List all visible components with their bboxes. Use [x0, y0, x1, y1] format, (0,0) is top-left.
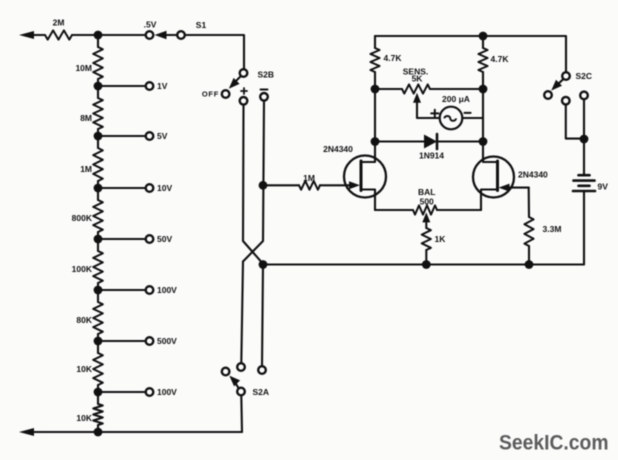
resistor 8M (divider) [80, 86, 103, 136]
svg-text:200 μA: 200 μA [442, 94, 470, 104]
switch S2A contact open [222, 368, 230, 376]
wire 2M to .5V contact [72, 34, 145, 36]
switch contact minus [260, 90, 268, 101]
svg-text:1M: 1M [80, 164, 92, 174]
node crossover bus junction [259, 260, 268, 269]
terminal 50V [146, 234, 173, 244]
wire V+ top bus [375, 36, 566, 72]
svg-text:1N914: 1N914 [419, 151, 444, 161]
svg-text:2N4340: 2N4340 [323, 144, 353, 154]
svg-text:8M: 8M [80, 113, 92, 123]
node tap 5V [94, 132, 103, 141]
switch S2C wiper arm [551, 79, 563, 90]
terminal 10V [146, 183, 173, 193]
svg-text:S2A: S2A [253, 387, 270, 397]
wiper SENS to meter [413, 93, 440, 118]
wire battery bottom lead [583, 192, 585, 264]
watermark SeekIC.com [499, 431, 609, 455]
svg-text:10K: 10K [76, 364, 92, 374]
svg-text:100V: 100V [157, 285, 177, 295]
node tap 500V [94, 337, 103, 346]
switch S2C contact b [562, 97, 570, 105]
svg-text:4.7K: 4.7K [491, 54, 510, 64]
meter M1 200uA [431, 94, 470, 129]
switch S1 pole [177, 20, 206, 39]
wire meter to right rail [462, 117, 483, 119]
resistor 100K (divider) [72, 239, 103, 290]
svg-text:800K: 800K [72, 213, 93, 223]
wire left rail mid [374, 89, 376, 142]
terminal 100V [146, 285, 177, 295]
terminal 100V [146, 387, 177, 397]
wire tap 5V [98, 135, 145, 137]
wire tap 100V [98, 289, 145, 291]
switch S2A contact b [258, 366, 266, 374]
node V+ bus right [479, 32, 488, 41]
wire negative bus [263, 263, 584, 265]
node 3.3M bus [525, 260, 534, 269]
resistor 10K (divider) [76, 341, 102, 392]
svg-text:S1: S1 [196, 20, 207, 30]
wire plus lead [243, 105, 263, 264]
wire Q2 gate to 3.3M [528, 188, 530, 217]
switch S2A wiper arm [229, 376, 240, 388]
svg-text:10V: 10V [157, 183, 172, 193]
resistor 2M [45, 18, 72, 40]
wire S1 to S2B [185, 35, 244, 69]
wire bottom return bus [45, 431, 242, 433]
wire right rail mid [482, 89, 484, 142]
svg-text:5V: 5V [157, 131, 168, 141]
wire battery top lead [583, 139, 585, 175]
wire contact c to battery node [583, 99, 585, 139]
svg-text:S2B: S2B [258, 70, 275, 80]
resistor 4.7K left [370, 36, 402, 89]
node tap 50V [94, 235, 103, 244]
resistor 1M (divider) [80, 136, 103, 188]
svg-text:10K: 10K [76, 413, 92, 423]
svg-text:5K: 5K [412, 74, 424, 84]
wire to S2A contact b [262, 265, 263, 366]
switch S2A contact a [237, 363, 245, 371]
wire tap 50V [98, 238, 145, 240]
switch S2C contact open [544, 91, 552, 99]
switch S2C pole [562, 71, 592, 81]
switch S2A pole [237, 387, 269, 397]
node gate tap [259, 181, 268, 190]
resistor 1M (gate) [299, 173, 320, 190]
svg-text:3.3M: 3.3M [543, 224, 562, 234]
node tap 100V [94, 388, 103, 397]
switch contact .5V [144, 20, 157, 39]
switch S2B wiper arm [229, 76, 241, 88]
wire tap 100V [98, 391, 145, 393]
node battery top [580, 135, 589, 144]
svg-text:500V: 500V [157, 336, 177, 346]
svg-text:S2C: S2C [576, 71, 593, 81]
wire 1M to Q1 gate [320, 184, 352, 186]
svg-text:80K: 80K [76, 315, 92, 325]
node divider bottom [94, 428, 103, 437]
probe arrow top input [19, 31, 45, 39]
svg-text:10M: 10M [75, 63, 92, 73]
svg-text:9V: 9V [598, 182, 609, 192]
switch S1 wiper arm [155, 31, 178, 39]
node tap 10V [94, 184, 103, 193]
wire tap 1V [98, 85, 145, 87]
resistor 10K (divider) [76, 392, 102, 432]
wire gate input [263, 184, 299, 186]
node right rail sens [479, 85, 488, 94]
resistor 4.7K right [478, 36, 509, 89]
switch contact OFF [202, 90, 230, 99]
node tap 1V [94, 82, 103, 91]
svg-text:4.7K: 4.7K [384, 53, 403, 63]
svg-text:SeekIC.com: SeekIC.com [499, 431, 609, 455]
svg-text:1M: 1M [303, 173, 315, 183]
potentiometer BAL 500 [375, 187, 481, 215]
svg-text:1K: 1K [435, 234, 447, 244]
potentiometer SENS 5K [375, 67, 483, 94]
svg-text:1V: 1V [157, 81, 168, 91]
node left rail sens [371, 85, 380, 94]
switch contact plus [240, 88, 248, 105]
probe arrow bottom [19, 428, 45, 436]
switch S2B pole [240, 69, 274, 79]
resistor 80K (divider) [76, 290, 102, 341]
svg-text:2N4340: 2N4340 [518, 170, 548, 180]
wire S2A to bottom bus [240, 396, 243, 432]
wire tap 10V [98, 187, 145, 189]
wiper BAL to 1K [422, 212, 430, 228]
battery B1 9V [573, 175, 608, 191]
wire minus lead [243, 101, 264, 262]
terminal 1V [146, 81, 168, 91]
transistor Q2 2N4340 [473, 142, 548, 211]
switch S2C contact c [580, 92, 588, 100]
svg-text:2M: 2M [53, 18, 65, 28]
svg-text:100K: 100K [72, 264, 93, 274]
transistor Q1 2N4340 [323, 142, 386, 211]
svg-text:BAL: BAL [418, 187, 435, 197]
svg-text:.5V: .5V [144, 20, 157, 30]
terminal 500V [146, 336, 177, 346]
wire tap 500V [98, 340, 145, 342]
resistor 10M (divider) [75, 35, 102, 86]
svg-text:50V: 50V [157, 234, 172, 244]
terminal 5V [146, 131, 168, 141]
resistor 800K (divider) [72, 188, 103, 239]
svg-text:OFF: OFF [202, 90, 219, 99]
node 1K bus [422, 260, 431, 269]
node right rail diode [479, 137, 488, 146]
node left rail diode [371, 137, 380, 146]
wire contact b to battery node [566, 105, 584, 139]
svg-text:100V: 100V [157, 387, 177, 397]
wire to S2A contact a [241, 262, 243, 363]
node divider top [94, 31, 103, 40]
diode 1N914 [375, 134, 483, 161]
svg-text:500: 500 [420, 197, 434, 207]
node tap 100V [94, 286, 103, 295]
resistor 3.3M [524, 217, 561, 265]
resistor 1K [422, 228, 447, 265]
